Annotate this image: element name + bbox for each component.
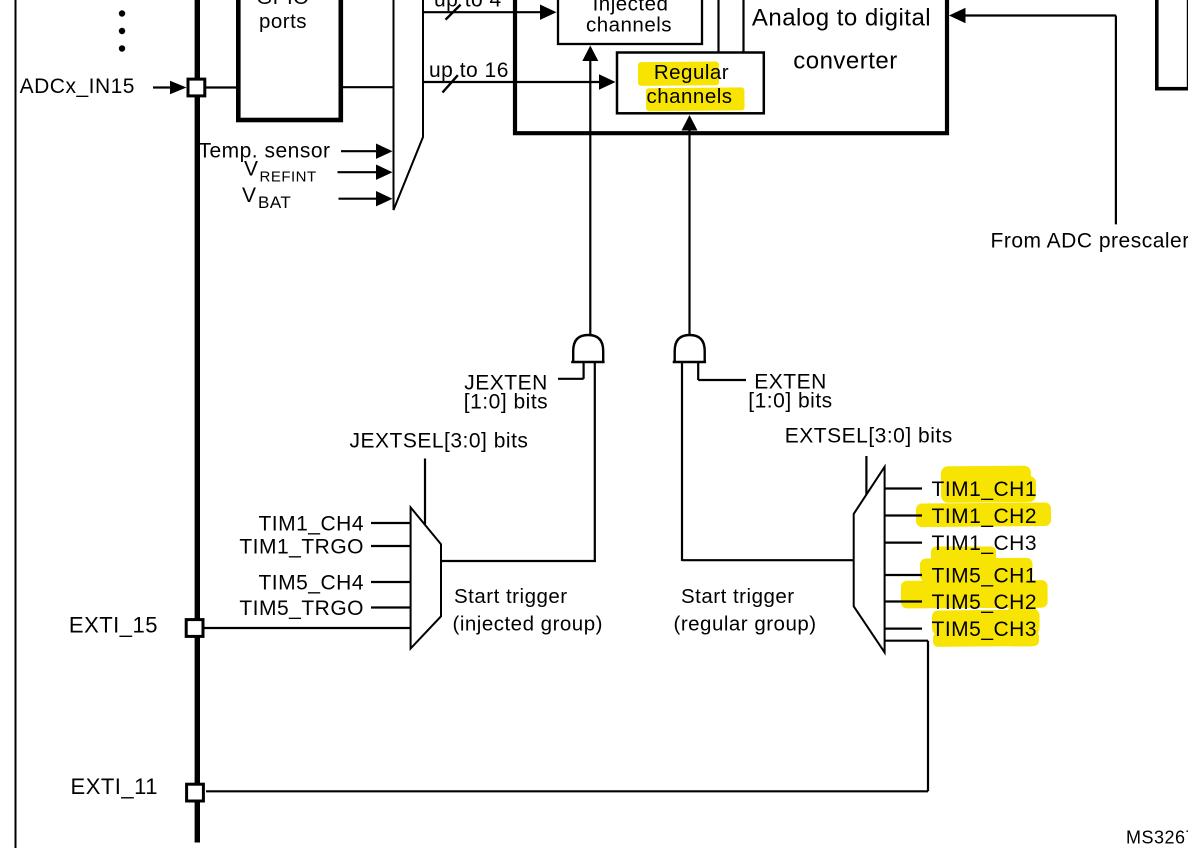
wire From ADC prescaler (949, 8, 1116, 225)
highlight streak below TIM5_CH3 (933, 632, 1039, 647)
svg-text:TIM1_TRGO: TIM1_TRGO (239, 536, 364, 559)
node VBAT label (242, 184, 291, 212)
wire EXT trigger to Regular channels (682, 115, 698, 336)
svg-text:TIM5_CH2: TIM5_CH2 (932, 591, 1038, 614)
svg-text:TIM5_CH3: TIM5_CH3 (932, 618, 1038, 641)
svg-text:[1:0] bits: [1:0] bits (748, 390, 832, 413)
svg-text:TIM5_CH4: TIM5_CH4 (258, 572, 364, 595)
wire JEXTEN input (558, 362, 584, 379)
label Start trigger (injected group) (453, 585, 603, 636)
wire data register link 2 (742, 0, 744, 53)
svg-text:TIM5_CH1: TIM5_CH1 (932, 565, 1038, 588)
mux regular trigger (854, 467, 885, 653)
wire regular mux output (682, 559, 854, 561)
svg-text:Temp. sensor: Temp. sensor (198, 140, 330, 163)
highlight bump left of TIM5_CH2 (901, 581, 932, 609)
svg-text:GPIO: GPIO (256, 0, 309, 9)
wire JEXT gate to injected mux (594, 362, 596, 562)
highlight TIM1_CH1 (941, 466, 1031, 503)
highlight TIM5_CH2 (920, 580, 1048, 608)
svg-text:V: V (242, 184, 257, 207)
svg-text:JEXTSEL[3:0] bits: JEXTSEL[3:0] bits (350, 430, 529, 453)
wire JEXTSEL select (424, 459, 426, 525)
wire TIM5_CH1 (885, 574, 922, 576)
mux injected trigger (411, 507, 441, 648)
svg-text:channels: channels (646, 85, 732, 108)
wire TIM1_CH2 (885, 514, 922, 516)
gate EXT (673, 335, 706, 362)
svg-text:Analog to digital: Analog to digital (752, 4, 931, 31)
wire EXTEN input (698, 362, 746, 380)
wire Temp. sensor arrow (341, 144, 393, 159)
highlight TIM5_CH3 (932, 609, 1040, 634)
wire TIM5_TRGO (371, 606, 411, 608)
mux analog input (394, 0, 424, 210)
svg-text:(injected group): (injected group) (453, 613, 603, 636)
svg-text:(regular group): (regular group) (674, 613, 817, 636)
wire TIM5_CH3 (885, 627, 922, 629)
highlight TIM5_CH1 (920, 558, 1033, 582)
wire TIM5_CH4 (371, 581, 411, 583)
svg-text:TIM1_CH3: TIM1_CH3 (932, 532, 1038, 555)
pad EXTI_15 (186, 620, 203, 637)
wire ADC input bus (195, 0, 200, 843)
svg-text:REFINT: REFINT (260, 169, 317, 186)
wire pad to GPIO ports (206, 86, 238, 88)
highlight Regular (638, 61, 719, 86)
pad EXTI_11 (187, 784, 204, 801)
block GPIO ports (238, 0, 340, 120)
highlight smear TIM1_CH3 to TIM5_CH1 (931, 547, 996, 564)
wire GPIO ports to analog mux (343, 86, 394, 88)
highlight channels (646, 87, 745, 111)
wire up to 16 (423, 59, 616, 93)
highlight TIM1_CH2 (916, 502, 1051, 527)
node VREFINT label (244, 158, 317, 186)
label Start trigger (regular group) (674, 585, 817, 636)
wire up to 4 (423, 0, 557, 20)
wire TIM5_CH2 (885, 600, 922, 602)
svg-text:TIM1_CH2: TIM1_CH2 (932, 505, 1038, 528)
label Regular channels (646, 61, 732, 108)
wire ADCx_IN15 arrow (153, 81, 187, 94)
highlight bump right of TIM5_CH2 (1006, 607, 1039, 646)
svg-text:EXTI_11: EXTI_11 (71, 774, 158, 799)
wire EXT gate to regular mux (681, 362, 683, 561)
wire injected mux output (441, 560, 596, 562)
svg-text:BAT: BAT (258, 193, 291, 212)
svg-text:V: V (244, 158, 259, 181)
svg-text:TIM1_CH4: TIM1_CH4 (258, 513, 364, 536)
gate JEXT (571, 335, 604, 362)
pad ADCx_IN15 (188, 79, 205, 96)
wire JEXT trigger to Injected channels (582, 46, 598, 336)
svg-text:Start trigger: Start trigger (454, 585, 568, 608)
wire EXTI_11 to regular mux (206, 641, 928, 792)
node continuation dots (119, 10, 125, 51)
label EXTEN [1:0] bits (748, 371, 832, 413)
wire TIM1_CH3 (885, 541, 922, 543)
svg-text:up to 16: up to 16 (429, 59, 509, 82)
wire EXTSEL select (865, 456, 867, 495)
svg-text:Regular: Regular (654, 61, 729, 84)
svg-text:converter: converter (793, 48, 898, 75)
svg-text:EXTSEL[3:0] bits: EXTSEL[3:0] bits (785, 425, 953, 448)
wire TIM1_TRGO (371, 545, 411, 547)
svg-text:up to 4: up to 4 (434, 0, 502, 12)
block Regular channels (617, 53, 764, 114)
svg-text:MS32670V1: MS32670V1 (1126, 828, 1188, 848)
svg-text:Start trigger: Start trigger (681, 585, 795, 608)
frame (15, 0, 17, 848)
wire VBAT arrow (339, 191, 393, 206)
block top right (cut) (1157, 0, 1188, 89)
block Injected channels (558, 0, 702, 44)
label JEXTEN [1:0] bits (464, 372, 548, 414)
svg-text:From ADC prescaler: From ADC prescaler (991, 230, 1188, 253)
svg-text:[1:0] bits: [1:0] bits (464, 391, 548, 414)
wire EXTI_15 to injected mux (204, 627, 411, 629)
svg-text:ports: ports (259, 10, 307, 33)
wire TIM1_CH1 (885, 487, 922, 489)
svg-text:ADCx_IN15: ADCx_IN15 (20, 75, 135, 98)
wire VREFINT arrow (338, 165, 393, 180)
svg-text:channels: channels (586, 14, 672, 37)
svg-text:EXTI_15: EXTI_15 (69, 613, 158, 638)
wire data register link 1 (717, 0, 719, 53)
svg-text:TIM1_CH1: TIM1_CH1 (932, 478, 1038, 501)
svg-text:TIM5_TRGO: TIM5_TRGO (239, 597, 364, 620)
wire TIM1_CH4 (371, 522, 411, 524)
block Analog to digital converter (515, 0, 947, 133)
